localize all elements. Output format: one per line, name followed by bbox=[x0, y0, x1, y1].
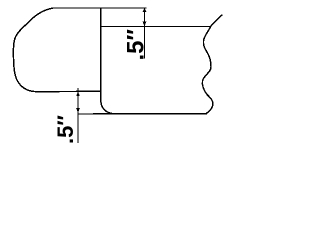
freehand break line bbox=[202, 15, 222, 114]
board rounded left end bbox=[13, 8, 53, 92]
board top edge with extension line bbox=[53, 7, 146, 9]
board right edge bbox=[100, 8, 102, 102]
sheet top edge bbox=[101, 26, 211, 28]
bottom dimension arrow down bbox=[76, 108, 80, 113]
top dimension arrow down bbox=[143, 22, 147, 27]
board inner corner curve to sheet line bbox=[101, 102, 115, 114]
top dimension arrow up bbox=[143, 8, 147, 12]
svg-text:.5″: .5″ bbox=[53, 115, 78, 144]
sheet bottom line (extension to dimension) bbox=[78, 113, 206, 115]
bottom dimension arrow up bbox=[76, 92, 80, 97]
top dimension line bbox=[144, 8, 146, 58]
bottom dimension line bbox=[77, 89, 79, 143]
svg-text:.5″: .5″ bbox=[123, 28, 150, 60]
board bottom edge bbox=[36, 90, 101, 92]
